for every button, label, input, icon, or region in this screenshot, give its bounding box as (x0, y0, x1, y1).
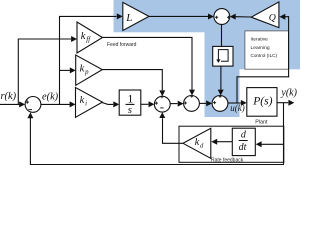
wire up right side to Q (285, 17, 289, 77)
ILC label box (245, 31, 289, 69)
wire S3 to plant (228, 100, 247, 106)
wire d/dt to kd (211, 139, 232, 145)
svg-text:y(k): y(k) (280, 87, 297, 98)
wire e branch up to L and kp (60, 16, 117, 104)
wire memory to S3 (218, 66, 224, 95)
ILC shaded region top band (114, 0, 301, 32)
wire y feedback into d/dt (256, 141, 284, 147)
svg-text:k: k (80, 95, 85, 106)
gain kd (183, 128, 211, 158)
svg-text:k: k (81, 31, 86, 42)
wire y branch down right side to bottom feedback (30, 103, 283, 165)
wire Q output to ILC sum (230, 14, 251, 20)
wire kff output to S2 (102, 37, 195, 95)
wire arrow into Q (279, 14, 285, 20)
wire arrow into S_err bottom (27, 112, 33, 118)
svg-text:Q: Q (269, 12, 276, 23)
memory block (iteration delay) (213, 46, 233, 66)
summing junction S1 (154, 95, 170, 112)
svg-text:Rate feedback: Rate feedback (211, 157, 244, 163)
filter Q (251, 2, 279, 28)
svg-text:k: k (80, 63, 85, 74)
wire ki output to integrator (102, 101, 120, 107)
svg-text:L: L (125, 12, 132, 24)
label Rate feedback (211, 157, 244, 163)
summing junction ILC sum (214, 9, 230, 25)
wire u branch up to Q filter (237, 77, 289, 103)
svg-text:r(k): r(k) (1, 91, 17, 102)
svg-text:s: s (128, 104, 132, 116)
wire kp output to S1 (102, 70, 165, 97)
gain L (learning function) (123, 2, 149, 30)
wire S1 to S2 (170, 101, 183, 107)
summing junction S2 (184, 95, 200, 112)
wire r branch up to feedforward (18, 39, 71, 104)
svg-text:Control (ILC): Control (ILC) (251, 53, 278, 58)
wire ILC sum down to memory (221, 24, 223, 46)
svg-text:p: p (84, 69, 89, 76)
wire arrow into L (117, 13, 123, 19)
svg-text:Plant: Plant (255, 120, 268, 126)
wire S2 to S3 (199, 100, 212, 106)
summing junction S3 (u) (212, 95, 228, 111)
derivative block d/dt (232, 128, 255, 155)
svg-text:Iterative: Iterative (251, 37, 269, 43)
gain ki (76, 88, 103, 118)
wire e(k) from S_err to ki (41, 101, 76, 107)
rate feedback box (179, 126, 284, 162)
ILC shaded vertical strip to u(k) sum (205, 0, 240, 117)
integrator block 1/s (119, 90, 141, 116)
svg-text:dt: dt (239, 142, 247, 153)
gain kff (77, 22, 103, 53)
wire arrow into kff (71, 36, 77, 42)
ILC shaded region right block (240, 0, 301, 69)
wire integrator to S1 (141, 101, 155, 107)
svg-text:Feed forward: Feed forward (107, 42, 137, 48)
wire y(k) output (277, 100, 294, 106)
wire L output to ILC sum (149, 14, 214, 20)
gain kp (76, 55, 103, 85)
plant block P(s) (247, 88, 277, 117)
svg-text:Learning: Learning (251, 45, 270, 51)
svg-text:e(k): e(k) (42, 92, 59, 103)
summing junction S_err (25, 97, 41, 113)
svg-text:i: i (85, 101, 87, 108)
svg-text:P(s): P(s) (252, 94, 272, 107)
wire r(k) input (0, 101, 25, 107)
wire kd output to S1 bottom (159, 112, 183, 143)
wire e branch to kp (60, 67, 76, 73)
